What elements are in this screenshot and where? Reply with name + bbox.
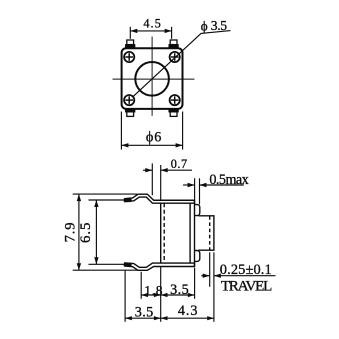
svg-text:4.5: 4.5 [143,16,162,30]
dimension 4.5: dimension line with arrows [130,30,171,32]
dimension 0.5max: extension lines [194,178,196,200]
side view: top clip folded end blob [124,198,132,202]
top view: top-left lead tab [126,40,135,47]
dimension 0.7: left arrow line [143,169,152,171]
dimension 0.5max: left arrow line [183,184,195,186]
dimension 0.7: extension lines [151,163,153,195]
dimension 0.7: right arrow line [161,169,192,171]
top view: pad circle top-left with cross [124,52,134,62]
side view: bottom metal clip strip [125,263,195,270]
dimension 7.9: dimension line with arrows [78,194,80,270]
svg-text:6.5: 6.5 [78,222,94,244]
svg-text:3.5: 3.5 [135,304,154,320]
dimension 6.5: extension lines [89,199,127,201]
svg-text:4.3: 4.3 [178,303,198,319]
svg-text:TRAVEL: TRAVEL [221,278,272,295]
dimension 7.9: extension lines [73,193,137,195]
dimension 0.25 travel: right arrow line [214,275,276,277]
svg-text:ϕ: ϕ [201,18,208,33]
top view: pad circle top-right with cross [170,52,180,62]
dimension 3.5/4.3 row: left extension line [124,271,126,322]
top view: bottom-right lead tab [169,109,178,116]
side view: bottom clip folded end blob [124,263,132,267]
dimension phi3.5: leader line with underline [133,31,230,97]
side view: top step boss [195,205,200,216]
dimension 0.25 travel: extension lines [209,252,211,286]
svg-text:0.7: 0.7 [171,157,188,171]
svg-text:3.5: 3.5 [211,18,227,33]
dimension phi6: dimension line with arrows [121,144,182,146]
svg-text:1.8: 1.8 [144,283,163,298]
side view: body right edge outer line [194,200,196,266]
side view: plunger pressed position dashed line [209,216,211,250]
dimension phi6: extension lines [120,112,122,150]
dimension 1.8: dimension line with arrows [141,294,161,296]
svg-text:0.25±0.1: 0.25±0.1 [220,262,272,278]
dimension 0.25 travel: left arrow line [201,275,209,277]
dimension 6.5: dimension line with arrows [95,200,97,264]
svg-text:3.5: 3.5 [170,282,189,298]
top view: vertical centerline [151,37,153,116]
top view: pad circle bottom-left with cross [124,95,134,105]
top view: center button circle [135,62,169,96]
dimension 1.8/3.5 row: extension lines [140,272,142,299]
top view: bottom-left lead tab [126,109,135,116]
side view: center post seam hidden dashed line [163,203,165,263]
top view: top-right lead tab [169,40,178,47]
top view: pad circle bottom-right with cross [170,95,180,105]
top view: horizontal centerline [113,78,195,80]
dimension 3.5 (row2): dimension line with arrows [125,317,161,319]
side view: center post seam solid line [160,203,162,263]
svg-text:ϕ6: ϕ6 [146,130,162,146]
dimension 4.3: dimension line with arrows [161,317,214,319]
side view: body right edge inner line [189,203,191,263]
dimension 3.5 (row1): dimension line with arrows [161,294,195,296]
svg-text:7.9: 7.9 [63,222,79,243]
side view: plunger outline [198,216,214,250]
side view: top metal clip strip [125,194,195,203]
side view: bottom step boss [195,251,200,262]
svg-text:0.5max: 0.5max [209,172,248,188]
dimension 0.5max: right arrow line [200,184,244,186]
dimension 4.5: extension lines [129,27,131,39]
top view: switch body outline [122,48,183,109]
